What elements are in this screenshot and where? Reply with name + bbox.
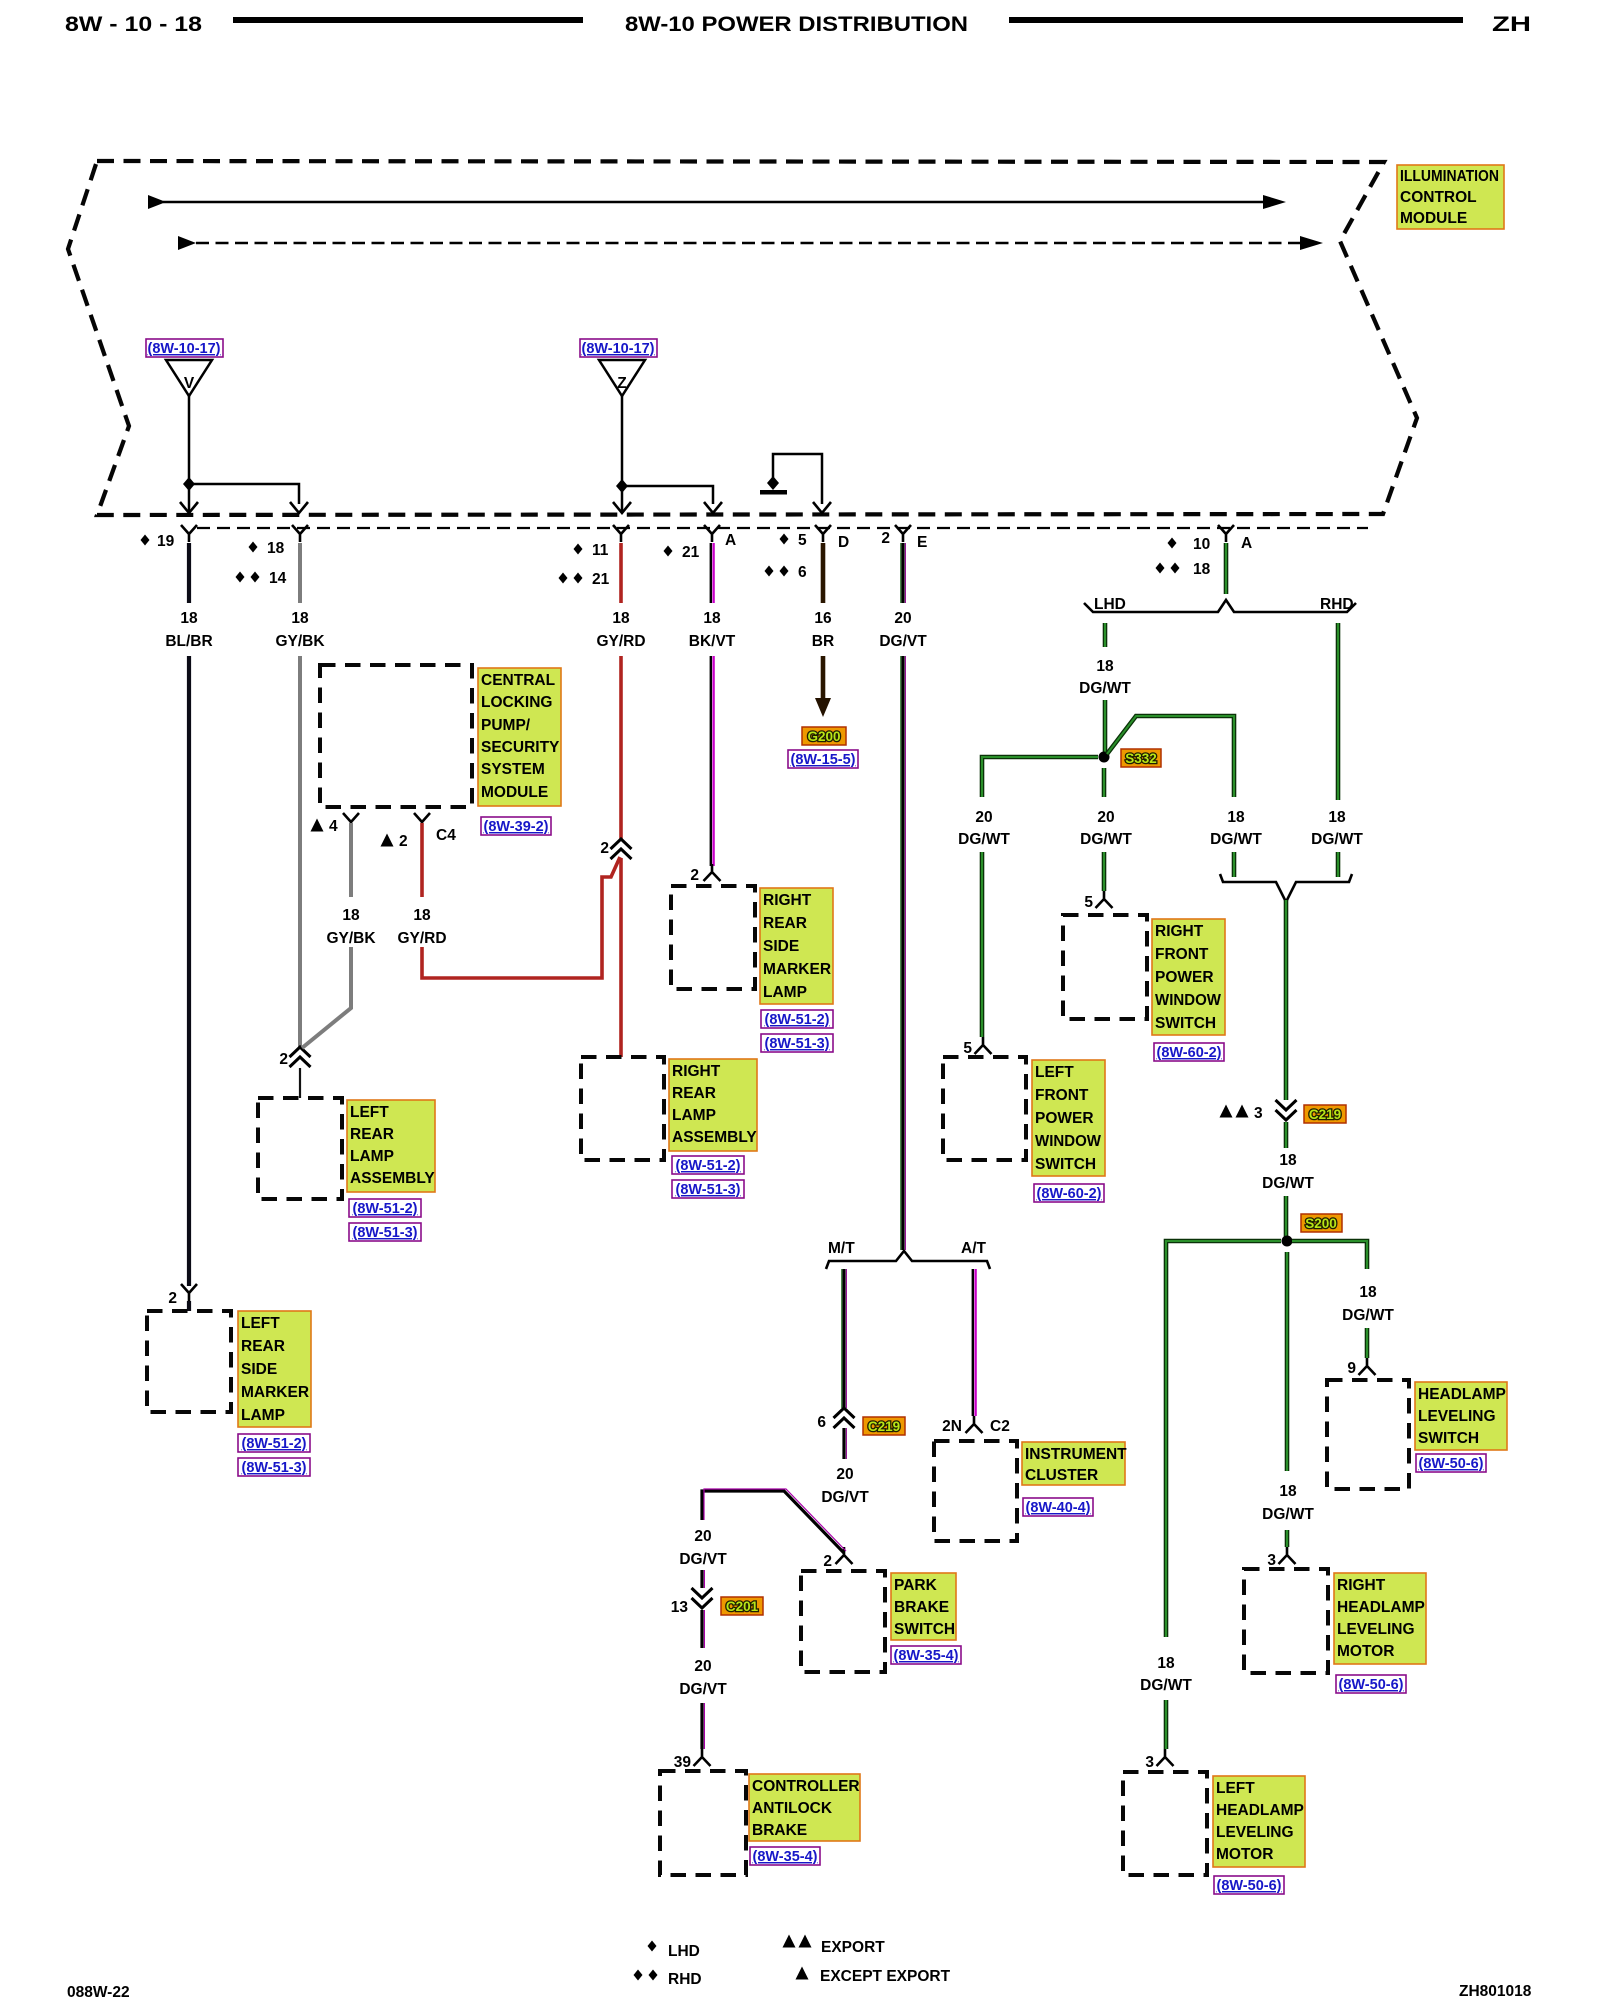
- wire below C201: [702, 1610, 704, 1648]
- svg-text:088W-22: 088W-22: [67, 1984, 130, 2000]
- wire branch to C201: [702, 1489, 846, 1553]
- svg-text:20: 20: [1097, 809, 1114, 826]
- svg-text:LEVELING: LEVELING: [1418, 1408, 1496, 1425]
- link 8W-50-6 (LHLM): [1214, 1876, 1284, 1894]
- svg-text:2: 2: [168, 1290, 177, 1307]
- svg-text:DG/WT: DG/WT: [1311, 831, 1363, 848]
- svg-text:39: 39: [674, 1754, 692, 1771]
- svg-text:GY/RD: GY/RD: [397, 930, 446, 947]
- svg-text:(8W-51-2): (8W-51-2): [242, 1436, 307, 1452]
- link 8W-35-4 (PBS): [891, 1646, 961, 1664]
- svg-text:MODULE: MODULE: [481, 784, 548, 801]
- svg-text:3: 3: [1145, 1754, 1154, 1771]
- right headlamp leveling motor box: [1244, 1569, 1328, 1673]
- left rear side marker lamp box: [147, 1311, 231, 1412]
- svg-text:SIDE: SIDE: [763, 938, 799, 955]
- pin 21 markers (GY/RD): [559, 573, 568, 584]
- wire C4 GY/RD loop to inline connector: [422, 857, 620, 978]
- svg-text:ASSEMBLY: ASSEMBLY: [350, 1170, 435, 1187]
- splice tag S200: [1301, 1214, 1342, 1232]
- except-export marker (pin 4): [311, 819, 324, 832]
- svg-text:FRONT: FRONT: [1155, 946, 1209, 963]
- svg-text:(8W-40-4): (8W-40-4): [1026, 1500, 1091, 1516]
- svg-text:LOCKING: LOCKING: [481, 694, 552, 711]
- svg-text:10: 10: [1193, 536, 1210, 553]
- LHD / RHD split bracket: [1084, 600, 1356, 612]
- export markers (C219 right): [1220, 1105, 1233, 1118]
- svg-text:GY/BK: GY/BK: [275, 633, 325, 650]
- svg-text:19: 19: [157, 533, 175, 550]
- svg-text:MODULE: MODULE: [1400, 210, 1467, 227]
- svg-text:ZH: ZH: [1492, 13, 1531, 36]
- svg-text:POWER: POWER: [1035, 1110, 1094, 1127]
- svg-text:HEADLAMP: HEADLAMP: [1418, 1386, 1506, 1403]
- link 8W-50-6 (RHLM): [1336, 1675, 1406, 1693]
- svg-text:8W-10 POWER DISTRIBUTION: 8W-10 POWER DISTRIBUTION: [625, 13, 968, 36]
- svg-text:18: 18: [413, 907, 431, 924]
- svg-text:LAMP: LAMP: [763, 984, 807, 1001]
- svg-text:DG/WT: DG/WT: [1080, 831, 1132, 848]
- right rear lamp assembly label: [669, 1059, 757, 1151]
- svg-text:9: 9: [1347, 1360, 1356, 1377]
- left front power window switch box: [943, 1057, 1026, 1160]
- svg-text:REAR: REAR: [350, 1126, 394, 1143]
- svg-text:BL/BR: BL/BR: [165, 633, 212, 650]
- svg-text:RIGHT: RIGHT: [763, 892, 812, 909]
- svg-text:SECURITY: SECURITY: [481, 739, 560, 756]
- wire S200 down lower run: [1285, 1530, 1290, 1547]
- connector pin 19: [181, 525, 197, 542]
- legend LHD marker: [648, 1941, 657, 1952]
- link 8W-51-2 (RRLA): [672, 1156, 744, 1174]
- park brake switch label: [891, 1573, 956, 1640]
- svg-text:LEFT: LEFT: [241, 1315, 280, 1332]
- svg-text:CENTRAL: CENTRAL: [481, 672, 555, 689]
- wire BL/BR long run: [187, 656, 191, 1286]
- right front power window switch box: [1063, 915, 1147, 1019]
- svg-text:(8W-10-17): (8W-10-17): [581, 341, 654, 357]
- connector 3 left headlamp leveling motor: [1157, 1749, 1174, 1766]
- controller antilock brake label: [749, 1774, 860, 1841]
- wire GY/RD run into right rear lamp assembly: [619, 858, 623, 1057]
- connector 39 controller antilock brake: [694, 1749, 711, 1766]
- merge bracket LHD/RHD to C219: [1220, 874, 1352, 902]
- header rule left: [233, 17, 583, 23]
- wire BL/BR upper: [187, 543, 191, 603]
- svg-text:(8W-51-3): (8W-51-3): [242, 1460, 307, 1476]
- svg-text:LAMP: LAMP: [672, 1107, 716, 1124]
- splice S332: [1099, 752, 1110, 763]
- svg-text:18: 18: [1157, 1655, 1175, 1672]
- connector 2 park brake switch: [836, 1547, 853, 1564]
- link 8W-39-2: [481, 817, 551, 835]
- wire S200 right lower run: [1365, 1328, 1370, 1358]
- arrow into connector 11: [613, 486, 631, 513]
- svg-text:20: 20: [894, 610, 911, 627]
- link 8W-35-4 (CAB): [750, 1847, 820, 1865]
- link 8W-51-3 (RRSM): [761, 1034, 833, 1052]
- svg-text:MARKER: MARKER: [241, 1384, 309, 1401]
- svg-text:LEFT: LEFT: [350, 1104, 389, 1121]
- svg-text:18: 18: [1227, 809, 1245, 826]
- svg-text:C4: C4: [436, 827, 456, 844]
- svg-text:(8W-60-2): (8W-60-2): [1037, 1186, 1102, 1202]
- svg-text:20: 20: [694, 1528, 711, 1545]
- svg-text:2N: 2N: [942, 1418, 962, 1435]
- svg-text:C219: C219: [868, 1419, 900, 1434]
- wire BR upper: [821, 543, 826, 603]
- legend EXPORT markers: [783, 1935, 796, 1948]
- svg-text:20: 20: [975, 809, 992, 826]
- svg-text:SWITCH: SWITCH: [1418, 1430, 1479, 1447]
- svg-text:18: 18: [180, 610, 198, 627]
- svg-text:DG/WT: DG/WT: [1140, 1677, 1192, 1694]
- connector 5 left front power window switch: [975, 1037, 992, 1054]
- svg-text:14: 14: [269, 570, 287, 587]
- connector bar line: [197, 527, 1368, 529]
- link 8W-15-5: [788, 750, 858, 768]
- illumination control module outline: [68, 161, 1417, 515]
- wire LHD DG/WT upper stub: [1103, 623, 1108, 647]
- svg-text:21: 21: [682, 544, 700, 561]
- svg-text:LHD: LHD: [1094, 596, 1126, 613]
- svg-text:18: 18: [703, 610, 721, 627]
- wire DG/WT from merge to C219: [1284, 900, 1289, 1100]
- arrow into connector D: [813, 502, 831, 513]
- wire DG/WT feed A upper: [1224, 543, 1229, 594]
- svg-text:(8W-51-2): (8W-51-2): [353, 1201, 418, 1217]
- wire into C201: [702, 1570, 704, 1588]
- left headlamp leveling motor box: [1123, 1772, 1207, 1875]
- connector 9 headlamp leveling switch: [1359, 1358, 1376, 1375]
- wire RHD DG/WT upper stub: [1336, 623, 1341, 800]
- svg-text:SWITCH: SWITCH: [1155, 1015, 1216, 1032]
- svg-text:M/T: M/T: [828, 1240, 855, 1257]
- svg-text:LAMP: LAMP: [350, 1148, 394, 1165]
- link 8W-51-2 (LRSM): [238, 1434, 310, 1452]
- wire GY/BK long run: [298, 656, 302, 1047]
- svg-text:(8W-50-6): (8W-50-6): [1419, 1456, 1484, 1472]
- link 8W-51-3 (RRLA): [672, 1180, 744, 1198]
- svg-text:POWER: POWER: [1155, 969, 1214, 986]
- central locking pump/security system module box: [320, 665, 472, 807]
- svg-text:LAMP: LAMP: [241, 1407, 285, 1424]
- svg-text:HEADLAMP: HEADLAMP: [1216, 1802, 1304, 1819]
- svg-text:Z: Z: [617, 375, 627, 392]
- link 8W-51-3 (LRLA): [349, 1223, 421, 1241]
- svg-text:SIDE: SIDE: [241, 1361, 277, 1378]
- headlamp leveling switch label: [1415, 1382, 1507, 1450]
- connector 3 right headlamp leveling motor: [1279, 1547, 1296, 1564]
- svg-text:A: A: [1241, 535, 1252, 552]
- svg-text:DG/VT: DG/VT: [879, 633, 927, 650]
- svg-text:G200: G200: [807, 729, 840, 744]
- wire S332 left lower run: [980, 852, 985, 1037]
- svg-text:SWITCH: SWITCH: [1035, 1156, 1096, 1173]
- svg-text:WINDOW: WINDOW: [1035, 1133, 1101, 1150]
- svg-text:D: D: [838, 534, 849, 551]
- wire Z split to pin A: [622, 486, 713, 504]
- svg-text:3: 3: [1267, 1552, 1276, 1569]
- wire A/T DG/VT run: [973, 1269, 976, 1416]
- svg-text:BR: BR: [812, 633, 834, 650]
- connector C2 pin 2N instrument cluster: [966, 1416, 983, 1433]
- svg-text:4: 4: [329, 818, 338, 835]
- connector 5 right front power window switch: [1096, 891, 1113, 908]
- wire BL/BR stub into lamp: [187, 1301, 191, 1311]
- ground arrow head: [815, 698, 831, 717]
- instrument cluster label: [1022, 1442, 1127, 1485]
- svg-text:ILLUMINATION: ILLUMINATION: [1400, 168, 1499, 185]
- wire S332 right lower run: [1232, 852, 1237, 877]
- svg-text:13: 13: [671, 1599, 689, 1616]
- svg-text:(8W-60-2): (8W-60-2): [1157, 1045, 1222, 1061]
- wire into controller antilock brake: [702, 1703, 704, 1749]
- svg-text:HEADLAMP: HEADLAMP: [1337, 1599, 1425, 1616]
- svg-text:LEFT: LEFT: [1216, 1780, 1255, 1797]
- svg-text:18: 18: [612, 610, 630, 627]
- junction dot V: [183, 477, 195, 491]
- svg-text:(8W-51-2): (8W-51-2): [676, 1158, 741, 1174]
- link 8W-50-6 (HLS): [1416, 1454, 1486, 1472]
- svg-text:PUMP/: PUMP/: [481, 717, 531, 734]
- right rear side marker lamp label: [760, 888, 833, 1004]
- wire S332 left branch (to left front power window switch): [982, 757, 1098, 797]
- svg-text:6: 6: [798, 564, 807, 581]
- svg-text:DG/WT: DG/WT: [1342, 1307, 1394, 1324]
- svg-text:ASSEMBLY: ASSEMBLY: [672, 1129, 757, 1146]
- svg-text:16: 16: [814, 610, 832, 627]
- svg-text:DG/WT: DG/WT: [958, 831, 1010, 848]
- wire S332 upper-right branch (18 DG/WT): [1107, 716, 1234, 797]
- pin 6 markers: [765, 566, 774, 577]
- svg-text:PARK: PARK: [894, 1577, 938, 1594]
- svg-text:3: 3: [1254, 1105, 1263, 1122]
- svg-text:20: 20: [694, 1658, 711, 1675]
- svg-text:18: 18: [1096, 658, 1114, 675]
- svg-text:DG/VT: DG/VT: [679, 1681, 727, 1698]
- wire C4 GY/RD stub: [420, 823, 424, 897]
- arrow into connector A: [704, 502, 722, 513]
- wire S332 down lower run: [1102, 852, 1107, 891]
- svg-text:CLUSTER: CLUSTER: [1025, 1467, 1098, 1484]
- inline connector C219 (M/T): [834, 1408, 855, 1428]
- svg-text:2: 2: [399, 833, 408, 850]
- left headlamp leveling motor label: [1213, 1776, 1305, 1867]
- svg-text:(8W-35-4): (8W-35-4): [894, 1648, 959, 1664]
- except-export marker (pin 2): [381, 834, 394, 847]
- svg-text:18: 18: [342, 907, 360, 924]
- svg-text:LEVELING: LEVELING: [1337, 1621, 1415, 1638]
- svg-text:MOTOR: MOTOR: [1216, 1846, 1273, 1863]
- wire BR to ground: [821, 656, 826, 700]
- park brake switch box: [801, 1571, 885, 1672]
- svg-text:20: 20: [836, 1466, 853, 1483]
- central locking module label: [478, 668, 561, 806]
- svg-text:S200: S200: [1305, 1216, 1337, 1231]
- legend EXCEPT EXPORT marker: [796, 1967, 809, 1980]
- svg-text:LEVELING: LEVELING: [1216, 1824, 1294, 1841]
- wire DG/VT long run to M/T A/T split: [901, 656, 906, 1250]
- wire LHD DG/WT to S332: [1103, 700, 1108, 757]
- wire S200 down branch (to right headlamp leveling motor): [1285, 1252, 1290, 1471]
- legend RHD markers: [634, 1970, 643, 1981]
- wire M/T DG/VT run: [842, 1269, 847, 1408]
- right headlamp leveling motor label: [1334, 1573, 1426, 1664]
- svg-text:MARKER: MARKER: [763, 961, 831, 978]
- svg-text:ANTILOCK: ANTILOCK: [752, 1800, 833, 1817]
- svg-text:WINDOW: WINDOW: [1155, 992, 1221, 1009]
- svg-text:ZH801018: ZH801018: [1459, 1983, 1532, 2000]
- connector 2 left rear side marker: [181, 1284, 197, 1301]
- svg-text:8W - 10 - 18: 8W - 10 - 18: [65, 13, 202, 36]
- ground stub feed D: [760, 454, 822, 504]
- svg-text:A/T: A/T: [961, 1240, 987, 1257]
- wire S200 left branch (to left headlamp leveling motor): [1166, 1241, 1281, 1637]
- wire BK/VT run: [711, 656, 714, 866]
- svg-text:(8W-51-2): (8W-51-2): [765, 1012, 830, 1028]
- connector tag C201: [721, 1597, 763, 1615]
- svg-text:DG/WT: DG/WT: [1079, 680, 1131, 697]
- left rear side marker lamp label: [238, 1311, 311, 1427]
- connector pin A (BK/VT): [704, 525, 720, 542]
- svg-text:REAR: REAR: [763, 915, 807, 932]
- svg-text:2: 2: [823, 1553, 832, 1570]
- svg-text:CONTROLLER: CONTROLLER: [752, 1778, 860, 1795]
- wire C4 GY/BK run and merge diagonal: [302, 947, 351, 1048]
- svg-text:5: 5: [798, 532, 807, 549]
- inline connector 2 (GY/RD): [611, 839, 632, 859]
- link 8W-10-17 (Z feed): [580, 339, 657, 357]
- triangle splice V: [166, 360, 212, 484]
- link 8W-51-3 (LRSM): [238, 1458, 310, 1476]
- ground tag G200: [802, 727, 846, 745]
- wire RHD DG/WT run: [1336, 852, 1341, 877]
- connector 2 right rear side marker: [704, 864, 721, 881]
- svg-text:A: A: [725, 532, 736, 549]
- connector C4 pin 2: [414, 813, 430, 830]
- pin 19 marker: [141, 535, 150, 546]
- wire DG/WT into S200: [1284, 1196, 1289, 1241]
- connector pin D: [815, 525, 831, 542]
- svg-text:(8W-51-3): (8W-51-3): [765, 1036, 830, 1052]
- svg-text:18: 18: [1279, 1483, 1297, 1500]
- wire DG/WT below C219 right: [1284, 1122, 1289, 1148]
- M/T / A/T split bracket: [826, 1251, 990, 1269]
- svg-text:BRAKE: BRAKE: [894, 1599, 949, 1616]
- svg-text:21: 21: [592, 571, 610, 588]
- svg-text:DG/WT: DG/WT: [1262, 1506, 1314, 1523]
- left front power window switch label: [1032, 1060, 1105, 1176]
- svg-text:MOTOR: MOTOR: [1337, 1643, 1394, 1660]
- connector tag C219 (M/T): [863, 1417, 905, 1435]
- svg-text:11: 11: [592, 542, 609, 559]
- illumination control module label: [1397, 165, 1504, 229]
- pin 11 marker: [574, 544, 583, 555]
- svg-text:2: 2: [600, 840, 609, 857]
- right front power window switch label: [1152, 919, 1225, 1035]
- svg-text:5: 5: [1084, 894, 1093, 911]
- connector pin 11: [613, 525, 629, 542]
- wire DG/VT below C219: [844, 1428, 846, 1459]
- connector pin 18: [292, 525, 308, 542]
- inline connector 2 (GY/BK merge): [290, 1047, 311, 1067]
- svg-text:(8W-50-6): (8W-50-6): [1339, 1677, 1404, 1693]
- svg-text:2: 2: [881, 530, 890, 547]
- svg-text:CONTROL: CONTROL: [1400, 189, 1477, 206]
- connector pin A (right DG/WT): [1218, 525, 1234, 542]
- wire GY/BK upper: [298, 543, 302, 603]
- pin 18 marker: [249, 542, 258, 553]
- link 8W-60-2 (LFPWS): [1034, 1184, 1104, 1202]
- wire DG/VT upper: [901, 543, 906, 603]
- pin 14 markers: [236, 572, 245, 583]
- svg-text:C2: C2: [990, 1418, 1010, 1435]
- svg-text:INSTRUMENT: INSTRUMENT: [1025, 1446, 1127, 1463]
- splice tag S332: [1121, 749, 1161, 767]
- wire S200 right branch (to headlamp leveling switch): [1292, 1241, 1367, 1269]
- svg-text:C219: C219: [1309, 1107, 1341, 1122]
- header rule right: [1009, 17, 1463, 23]
- svg-text:(8W-50-6): (8W-50-6): [1217, 1878, 1282, 1894]
- controller antilock brake box: [660, 1771, 746, 1875]
- svg-text:(8W-51-3): (8W-51-3): [676, 1182, 741, 1198]
- svg-text:(8W-51-3): (8W-51-3): [353, 1225, 418, 1241]
- svg-text:18: 18: [1279, 1152, 1297, 1169]
- wire C4 GY/BK stub: [349, 823, 353, 897]
- svg-text:2: 2: [690, 867, 699, 884]
- svg-text:E: E: [917, 534, 927, 551]
- svg-text:18: 18: [1193, 561, 1211, 578]
- svg-text:RHD: RHD: [1320, 596, 1354, 613]
- svg-text:SYSTEM: SYSTEM: [481, 761, 545, 778]
- svg-text:RIGHT: RIGHT: [1155, 923, 1204, 940]
- svg-text:(8W-15-5): (8W-15-5): [791, 752, 856, 768]
- svg-text:18: 18: [1359, 1284, 1377, 1301]
- inline connector C201: [692, 1588, 713, 1608]
- svg-text:DG/VT: DG/VT: [679, 1551, 727, 1568]
- svg-text:EXCEPT EXPORT: EXCEPT EXPORT: [820, 1968, 951, 1985]
- svg-text:6: 6: [817, 1414, 826, 1431]
- svg-text:DG/WT: DG/WT: [1210, 831, 1262, 848]
- inline connector C219 (right): [1276, 1100, 1297, 1120]
- wire GY/RD run to inline connector: [619, 656, 623, 841]
- svg-text:(8W-10-17): (8W-10-17): [147, 341, 220, 357]
- link 8W-60-2 (RFPWS): [1154, 1043, 1224, 1061]
- svg-text:S332: S332: [1125, 751, 1157, 766]
- wire S332 down branch (to right front power window switch): [1102, 768, 1107, 797]
- link 8W-51-2 (RRSM): [761, 1010, 833, 1028]
- svg-text:DG/WT: DG/WT: [1262, 1175, 1314, 1192]
- svg-text:DG/VT: DG/VT: [821, 1489, 869, 1506]
- svg-text:GY/BK: GY/BK: [326, 930, 376, 947]
- svg-text:18: 18: [1328, 809, 1346, 826]
- svg-text:RIGHT: RIGHT: [672, 1063, 721, 1080]
- splice S200: [1282, 1236, 1293, 1247]
- svg-text:(8W-35-4): (8W-35-4): [753, 1849, 818, 1865]
- right rear lamp assembly box: [581, 1057, 664, 1160]
- svg-text:REAR: REAR: [672, 1085, 716, 1102]
- svg-text:BK/VT: BK/VT: [689, 633, 736, 650]
- junction dot Z: [616, 479, 628, 493]
- pin 18 markers (right): [1156, 563, 1165, 574]
- svg-text:5: 5: [963, 1040, 972, 1057]
- svg-text:GY/RD: GY/RD: [596, 633, 645, 650]
- svg-text:FRONT: FRONT: [1035, 1087, 1089, 1104]
- svg-text:(8W-39-2): (8W-39-2): [484, 819, 549, 835]
- svg-text:V: V: [184, 375, 195, 392]
- left rear lamp assembly label: [347, 1100, 435, 1192]
